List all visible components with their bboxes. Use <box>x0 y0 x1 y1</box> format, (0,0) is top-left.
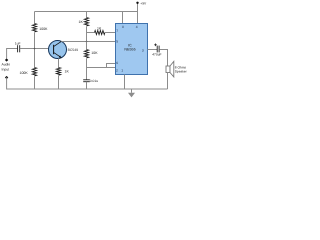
resistor 10K <box>86 42 88 50</box>
wire pins 2 and 6 branch <box>87 67 116 69</box>
resistor 1K vertical <box>84 18 88 26</box>
wire collector to pin5 <box>61 41 115 43</box>
transistor emitter arrow <box>59 55 62 57</box>
svg-text:1K: 1K <box>79 20 84 24</box>
wire pin7 entry <box>105 32 116 34</box>
node audio input bottom terminal <box>5 76 8 79</box>
node audio input top terminal <box>5 58 8 61</box>
wire pin 8 stub <box>122 12 124 24</box>
svg-text:1K: 1K <box>97 26 102 30</box>
svg-text:Input: Input <box>2 67 10 71</box>
svg-text:100K: 100K <box>39 27 48 31</box>
transistor Q1 BC549 body <box>49 41 67 59</box>
svg-text:NE555: NE555 <box>124 48 135 52</box>
wire cap to speaker <box>159 50 167 67</box>
wire pin 4 stub <box>137 12 139 24</box>
wire pin 3 output <box>148 49 158 51</box>
wire +9V riser <box>137 3 139 12</box>
transistor emitter lead <box>54 52 62 57</box>
capacitor 0.01u <box>83 79 90 81</box>
svg-text:6: 6 <box>116 61 118 65</box>
polarity plus mark <box>154 44 157 46</box>
node +9V terminal <box>136 2 138 4</box>
resistor 1K emitter <box>56 68 60 76</box>
capacitor 1uF <box>17 45 19 52</box>
wire emitter down <box>58 58 60 67</box>
svg-text:Speaker: Speaker <box>175 70 188 74</box>
wire bias chain upper <box>34 12 36 24</box>
svg-text:100K: 100K <box>20 71 29 75</box>
wire cap to base <box>20 48 54 50</box>
speaker LS1 <box>166 66 170 73</box>
wire bias chain to ground <box>34 77 36 90</box>
wire speaker to ground <box>167 73 169 90</box>
resistor 1K horizontal <box>95 31 105 35</box>
svg-text:0.01u: 0.01u <box>90 79 98 83</box>
svg-text:1: 1 <box>121 68 123 72</box>
wire ground rail <box>7 88 168 90</box>
wire pin7 branch <box>87 32 95 34</box>
svg-text:2: 2 <box>116 68 118 72</box>
svg-text:4: 4 <box>136 25 138 29</box>
svg-text:5: 5 <box>116 40 118 44</box>
svg-text:470uF: 470uF <box>152 53 161 57</box>
resistor 100K lower <box>32 68 36 76</box>
svg-text:10K: 10K <box>91 51 98 55</box>
wire top power rail <box>35 11 138 13</box>
svg-text:1uF: 1uF <box>15 42 21 46</box>
svg-text:3: 3 <box>142 48 144 52</box>
resistor 100K upper <box>32 24 36 32</box>
wire base node vertical <box>34 33 36 68</box>
svg-text:7: 7 <box>116 29 118 33</box>
wire middle chain mid <box>86 27 88 42</box>
svg-text:Audio: Audio <box>2 63 11 67</box>
ground symbol <box>131 89 133 93</box>
svg-text:8: 8 <box>122 25 124 29</box>
node base junction <box>34 48 36 50</box>
wire input riser <box>7 49 18 59</box>
svg-text:+9V: +9V <box>140 2 147 6</box>
op-amp IC U1 NE555 body <box>116 24 148 75</box>
wire middle chain from rail <box>86 12 88 18</box>
svg-text:BC549: BC549 <box>68 48 78 52</box>
wire emitter resistor to ground <box>58 76 60 89</box>
wire pin 1 to ground <box>124 75 126 90</box>
transistor collector lead <box>54 41 62 46</box>
svg-text:1K: 1K <box>65 69 70 73</box>
node collector junction <box>86 41 88 43</box>
wire cap to ground <box>86 82 88 89</box>
wire input ground leg <box>7 77 35 89</box>
wire 10K to cap <box>86 59 88 80</box>
capacitor C 470uF <box>156 46 158 53</box>
transistor base bar <box>53 45 55 54</box>
